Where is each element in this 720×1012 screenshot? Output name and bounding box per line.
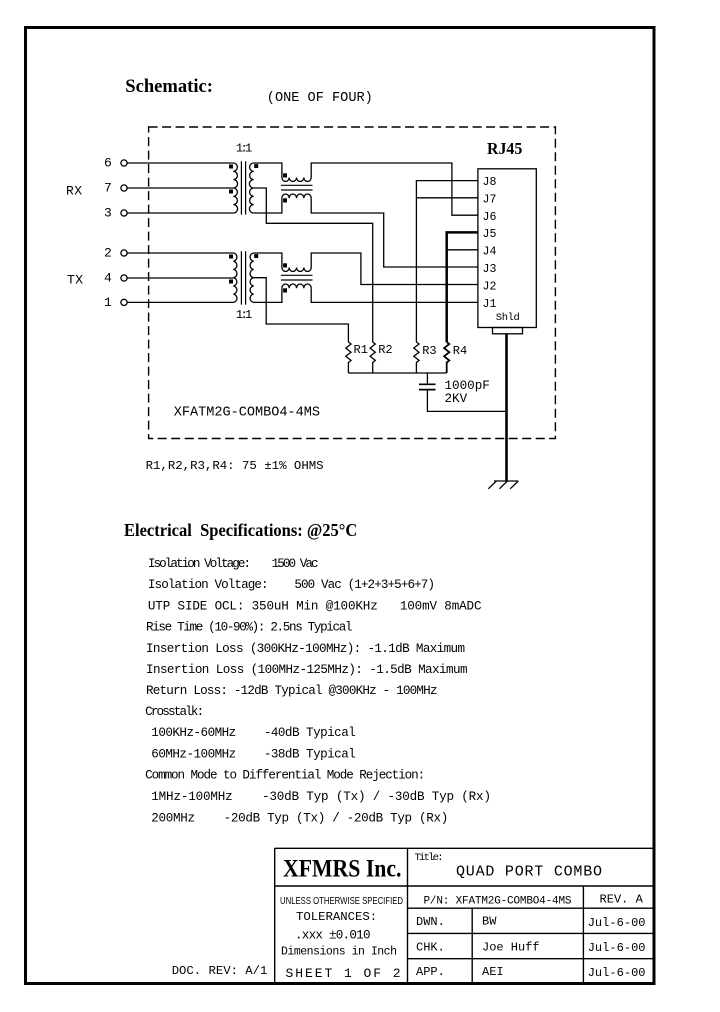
svg-text:BW: BW <box>482 915 497 929</box>
svg-text:SHEET 1 OF 2: SHEET 1 OF 2 <box>286 966 401 981</box>
svg-text:J1: J1 <box>483 298 497 311</box>
svg-text:J6: J6 <box>483 211 497 224</box>
svg-text:XFMRS Inc.: XFMRS Inc. <box>283 856 402 883</box>
svg-text:2: 2 <box>104 245 112 260</box>
svg-text:Jul-6-00: Jul-6-00 <box>588 966 646 980</box>
svg-text:.xxx ±0.010: .xxx ±0.010 <box>295 929 371 943</box>
svg-text:1:1: 1:1 <box>236 308 253 322</box>
svg-text:Isolation Voltage: 500 Vac: Isolation Voltage: 500 Vac (1+2+3+5+6+7) <box>148 578 435 592</box>
svg-text:(ONE OF FOUR): (ONE OF FOUR) <box>267 91 373 106</box>
svg-text:R4: R4 <box>453 344 467 358</box>
svg-text:Dimensions in Inch: Dimensions in Inch <box>281 946 397 959</box>
svg-text:R1: R1 <box>354 343 368 357</box>
svg-text:TX: TX <box>67 273 83 288</box>
svg-text:DWN.: DWN. <box>416 915 445 929</box>
svg-text:Jul-6-00: Jul-6-00 <box>588 916 646 930</box>
svg-text:Joe Huff: Joe Huff <box>482 940 540 954</box>
svg-text:Insertion Loss (300KHz-100MHz): Insertion Loss (300KHz-100MHz): -1.1dB M… <box>146 642 465 656</box>
svg-text:200MHz -20dB Typ (Tx) / -20: 200MHz -20dB Typ (Tx) / -20dB Typ (Rx) <box>151 811 448 825</box>
svg-text:R1,R2,R3,R4: 75 ±1% OHMS: R1,R2,R3,R4: 75 ±1% OHMS <box>146 459 324 473</box>
svg-text:APP.: APP. <box>416 965 445 979</box>
svg-text:6: 6 <box>104 155 112 170</box>
svg-text:Crosstalk:: Crosstalk: <box>145 705 204 719</box>
svg-text:Insertion Loss (100MHz-125MHz): Insertion Loss (100MHz-125MHz): -1.5dB M… <box>146 663 468 677</box>
svg-text:3: 3 <box>104 205 112 220</box>
svg-text:J7: J7 <box>483 193 497 206</box>
svg-text:J2: J2 <box>483 280 497 293</box>
svg-text:J5: J5 <box>483 228 497 241</box>
svg-text:Common Mode to Differential Mo: Common Mode to Differential Mode Rejecti… <box>145 769 425 783</box>
svg-text:Return Loss: -12dB Typical @30: Return Loss: -12dB Typical @300KHz - 100… <box>146 684 438 698</box>
svg-text:4: 4 <box>104 270 112 285</box>
svg-text:XFATM2G-COMBO4-4MS: XFATM2G-COMBO4-4MS <box>174 404 320 420</box>
svg-text:TOLERANCES:: TOLERANCES: <box>296 910 377 924</box>
svg-text:Isolation Voltage: 1500 Vac: Isolation Voltage: 1500 Vac <box>148 557 319 571</box>
svg-text:J8: J8 <box>483 176 497 189</box>
svg-text:Shld: Shld <box>496 312 520 324</box>
svg-text:R2: R2 <box>378 343 392 357</box>
svg-text:REV. A: REV. A <box>600 893 644 907</box>
svg-text:Schematic:: Schematic: <box>125 76 213 97</box>
svg-text:7: 7 <box>104 180 112 195</box>
svg-text:J4: J4 <box>483 246 497 259</box>
svg-text:CHK.: CHK. <box>416 940 445 954</box>
svg-text:60MHz-100MHz -38dB Typical: 60MHz-100MHz -38dB Typical <box>151 747 355 761</box>
svg-text:100KHz-60MHz -40dB Typical: 100KHz-60MHz -40dB Typical <box>151 726 355 740</box>
svg-text:UTP SIDE OCL: 350uH Min @100KH: UTP SIDE OCL: 350uH Min @100KHz 100mV 8m… <box>148 599 482 613</box>
svg-text:R3: R3 <box>422 344 436 358</box>
svg-text:AEI: AEI <box>482 965 504 979</box>
svg-text:Jul-6-00: Jul-6-00 <box>588 941 646 955</box>
svg-text:RJ45: RJ45 <box>487 139 522 158</box>
svg-text:2KV: 2KV <box>445 392 468 406</box>
svg-text:1: 1 <box>104 295 112 310</box>
svg-text:DOC. REV: A/1: DOC. REV: A/1 <box>172 964 268 978</box>
svg-text:1000pF: 1000pF <box>445 379 490 393</box>
svg-text:Title:: Title: <box>415 852 444 864</box>
svg-text:QUAD PORT COMBO: QUAD PORT COMBO <box>456 864 602 881</box>
svg-text:1:1: 1:1 <box>236 142 253 156</box>
svg-text:1MHz-100MHz -30dB Typ (Tx): 1MHz-100MHz -30dB Typ (Tx) / -30dB Typ (… <box>151 790 491 804</box>
svg-text:RX: RX <box>66 183 82 198</box>
svg-text:J3: J3 <box>483 263 497 276</box>
svg-text:UNLESS OTHERWISE SPECIFIED: UNLESS OTHERWISE SPECIFIED <box>280 895 403 907</box>
svg-text:Electrical Specifications: @2: Electrical Specifications: @25°C <box>124 520 357 540</box>
svg-text:P/N: XFATM2G-COMBO4-4MS: P/N: XFATM2G-COMBO4-4MS <box>424 896 572 908</box>
svg-text:Rise Time (10-90%): 2.5ns Typi: Rise Time (10-90%): 2.5ns Typical <box>146 621 353 635</box>
